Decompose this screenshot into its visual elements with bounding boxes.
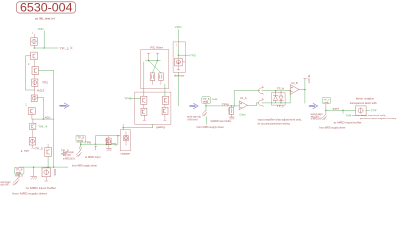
resistor R2	[32, 79, 38, 86]
transistor Q3	[28, 108, 35, 115]
junction	[53, 166, 54, 167]
svg-text:+5% level: +5% level	[187, 119, 198, 121]
wire	[205, 117, 207, 125]
wire	[53, 71, 55, 120]
pin	[45, 166, 47, 169]
svg-text:for accuracy/precision testing: for accuracy/precision testing	[258, 122, 291, 125]
svg-text:TP_L: TP_L	[277, 106, 285, 108]
wire	[32, 118, 54, 120]
wire	[80, 142, 82, 144]
wire diagonal	[152, 61, 157, 73]
wire	[164, 104, 166, 107]
svg-text:%: %	[183, 62, 185, 64]
svg-text:TP_H: TP_H	[277, 89, 285, 91]
junction	[205, 105, 206, 106]
svg-text:TM4: TM4	[346, 115, 352, 117]
pin	[45, 177, 47, 181]
svg-text:transparent latch with: transparent latch with	[350, 102, 378, 105]
no-connect arrow marker	[60, 103, 69, 108]
svg-text:TP_9: TP_9	[16, 170, 24, 172]
pin	[47, 144, 49, 148]
transistor Q8	[141, 108, 147, 115]
wire	[26, 55, 31, 57]
pin stub	[143, 115, 145, 120]
wire	[96, 135, 121, 137]
resistor R7	[231, 106, 233, 107]
svg-text:adj: adj	[77, 140, 83, 142]
pin 2 of R1	[33, 45, 35, 48]
svg-text:from MRD supply driver: from MRD supply driver	[319, 126, 345, 130]
svg-text:10k%: 10k%	[53, 169, 55, 176]
wire	[43, 31, 45, 48]
svg-text:adj +5%: adj +5%	[1, 185, 9, 187]
diode D1	[273, 91, 277, 103]
transistor Q9	[162, 107, 168, 114]
no-connect arrow marker 2	[190, 103, 198, 108]
transistor Q2	[32, 67, 39, 75]
wire	[79, 144, 81, 146]
pin	[32, 145, 34, 148]
op-amp U2	[290, 85, 299, 95]
svg-text:TP_OUT: TP_OUT	[307, 75, 309, 84]
svg-text:from MRD supply driver: from MRD supply driver	[72, 164, 97, 168]
transistor Q1	[31, 52, 38, 60]
svg-text:- +TP_5: - +TP_5	[31, 149, 44, 151]
wire	[32, 130, 34, 138]
svg-text:SET%: SET%	[104, 138, 106, 146]
junction	[325, 110, 326, 111]
svg-text:word sign adj: word sign adj	[187, 115, 201, 118]
pin stub	[164, 84, 166, 96]
svg-text:word sign: word sign	[63, 151, 75, 154]
wire	[53, 119, 55, 167]
connector J1	[259, 87, 264, 94]
svg-text:VDD: VDD	[38, 27, 44, 31]
wire diagonal	[149, 61, 161, 73]
wire	[160, 81, 162, 85]
wire	[299, 89, 305, 91]
junction	[148, 60, 149, 61]
junction	[157, 60, 158, 61]
svg-text:TP7: TP7	[332, 109, 340, 111]
wire	[19, 166, 68, 168]
svg-text:from MRD supply driver: from MRD supply driver	[13, 192, 48, 196]
feedback wire	[233, 91, 235, 106]
current source CS1	[175, 58, 183, 66]
svg-text:U1_A: U1_A	[240, 97, 247, 100]
svg-text:line state: line state	[356, 97, 375, 100]
junction	[80, 144, 81, 145]
op-amp U1	[239, 101, 247, 110]
diode D2	[279, 91, 283, 103]
transistor Q5	[45, 148, 52, 157]
wire	[143, 104, 145, 108]
svg-text:6530-004: 6530-004	[20, 0, 73, 14]
wire	[37, 96, 43, 98]
junction	[34, 47, 35, 48]
wire	[206, 105, 239, 107]
svg-text:to MRD input buffer: to MRD input buffer	[334, 120, 362, 124]
pin	[34, 86, 36, 90]
svg-text:to MRD_MUX: to MRD_MUX	[63, 158, 75, 161]
svg-text:input amplifier bias adjustmen: input amplifier bias adjustment only,	[258, 118, 302, 121]
wire jog below gating	[123, 127, 153, 129]
svg-text:5k0%: 5k0%	[227, 108, 229, 115]
wire	[18, 174, 20, 177]
wire riser	[152, 124, 154, 127]
stub wire	[111, 143, 116, 145]
junction	[43, 118, 44, 119]
wire	[177, 30, 179, 42]
sheet label box TP8	[76, 135, 86, 142]
wire	[177, 46, 179, 58]
svg-text:word sign: word sign	[1, 181, 12, 184]
wire	[117, 136, 119, 145]
svg-text:RC filter: RC filter	[150, 47, 163, 50]
svg-text:stopper: stopper	[121, 153, 131, 156]
wire	[42, 97, 44, 119]
sheet label box TP7	[322, 97, 330, 103]
ground	[106, 149, 111, 151]
wire	[34, 60, 36, 67]
svg-text:TP6: TP6	[222, 104, 230, 106]
wire	[25, 56, 27, 90]
capacitor C2	[159, 73, 164, 81]
wire	[234, 90, 260, 92]
resistor R10	[42, 168, 51, 177]
pin	[177, 66, 179, 70]
svg-text:TP2: TP2	[42, 80, 49, 84]
connector J2	[259, 99, 264, 106]
stopper block outline	[120, 130, 130, 151]
svg-text:TM_4: TM_4	[38, 127, 49, 129]
wire	[177, 72, 179, 106]
wire	[39, 70, 54, 72]
svg-text:U2_B: U2_B	[291, 83, 298, 85]
wire	[81, 143, 118, 145]
pin	[108, 145, 110, 148]
svg-text:to MRD input buffer: to MRD input buffer	[211, 119, 232, 123]
svg-text:TP_1: TP_1	[60, 48, 71, 50]
wire	[304, 79, 306, 104]
wire	[32, 119, 34, 123]
svg-text:to MRD input buffer: to MRD input buffer	[26, 186, 56, 190]
svg-text:MRD_B: MRD_B	[15, 176, 23, 178]
svg-text:from MRD supply driver: from MRD supply driver	[197, 125, 225, 129]
transistor Q4	[30, 123, 36, 130]
junction	[47, 166, 48, 167]
hanging pin	[95, 136, 97, 145]
resistor R3	[31, 95, 37, 102]
wire	[26, 89, 35, 91]
pin stub	[143, 62, 145, 96]
title box	[17, 2, 76, 13]
junction	[342, 110, 343, 111]
wire	[31, 114, 33, 119]
resistor R6	[106, 138, 111, 145]
detector block outline	[173, 42, 185, 73]
svg-text:TPF: TPF	[371, 111, 378, 113]
pin	[125, 132, 127, 136]
svg-text:ADJ: ADJ	[45, 116, 52, 120]
svg-text:preserve most original circuit: preserve most original circuitry	[360, 117, 398, 120]
pin tick	[177, 42, 179, 47]
resistor diagonal R14	[322, 110, 327, 120]
capacitor C1	[150, 73, 155, 81]
wire	[264, 90, 291, 92]
wire	[264, 102, 291, 104]
svg-text:%R: %R	[212, 99, 219, 101]
svg-text:keep transient only,: keep transient only,	[361, 114, 387, 117]
wire	[326, 109, 356, 111]
junction	[33, 166, 34, 167]
resistor R1	[31, 38, 38, 46]
wire	[342, 110, 344, 113]
wire stub	[352, 114, 360, 116]
wire	[33, 167, 35, 176]
transistor Q7	[162, 96, 168, 104]
svg-text:at INL test lvl: at INL test lvl	[35, 16, 55, 20]
resistor R15	[356, 106, 367, 115]
transistor Q6	[141, 96, 147, 104]
pin stub	[148, 53, 150, 60]
svg-text:TPD: TPD	[190, 55, 196, 58]
filter block outline	[141, 50, 169, 89]
svg-text:TP_6: TP_6	[203, 99, 210, 101]
pin	[366, 109, 369, 111]
wire	[122, 124, 124, 129]
pin	[108, 136, 110, 138]
junction	[44, 47, 45, 48]
wire	[47, 156, 49, 167]
svg-text:to MRD input: to MRD input	[85, 156, 101, 159]
svg-text:adj +5%: adj +5%	[63, 155, 71, 157]
resistor diagonal R11	[76, 150, 81, 157]
sheet label box TP6	[202, 97, 211, 104]
pin tick	[211, 120, 213, 121]
unconnected diamond	[79, 146, 82, 149]
pin 1 of R1	[33, 34, 35, 38]
pin stub	[156, 53, 158, 60]
svg-text:1 TP: 1 TP	[21, 151, 30, 153]
svg-text:ADJ: ADJ	[37, 90, 45, 93]
wire	[34, 75, 36, 80]
diode clamp box	[271, 93, 285, 105]
wire	[178, 54, 189, 56]
gating block outline	[135, 92, 171, 124]
svg-text:detector: detector	[174, 74, 185, 77]
wire	[130, 98, 141, 100]
svg-text:TP8: TP8	[85, 143, 92, 145]
ground	[30, 176, 37, 179]
junction	[178, 55, 179, 56]
resistor diagonal R13	[202, 110, 207, 116]
junction	[117, 135, 118, 136]
wire	[205, 103, 207, 110]
wire	[151, 81, 153, 85]
wire	[247, 104, 256, 106]
wire	[146, 60, 161, 62]
svg-text:Gain: Gain	[239, 114, 246, 116]
resistor R5	[29, 137, 35, 145]
wire	[289, 91, 291, 103]
svg-text:to MRD_MX: to MRD_MX	[311, 118, 322, 121]
pin stub	[164, 115, 166, 120]
no-connect arrow marker 3	[310, 103, 318, 108]
svg-text:TP_8: TP_8	[77, 138, 85, 140]
resistor R9 diagonal	[13, 177, 19, 185]
svg-text:gating: gating	[156, 125, 166, 129]
sheet label box TP9	[14, 167, 24, 174]
resistor R12	[124, 136, 129, 141]
ground	[229, 117, 234, 119]
svg-text:VDD: VDD	[175, 27, 183, 29]
wire	[34, 47, 58, 49]
wire	[325, 104, 327, 111]
